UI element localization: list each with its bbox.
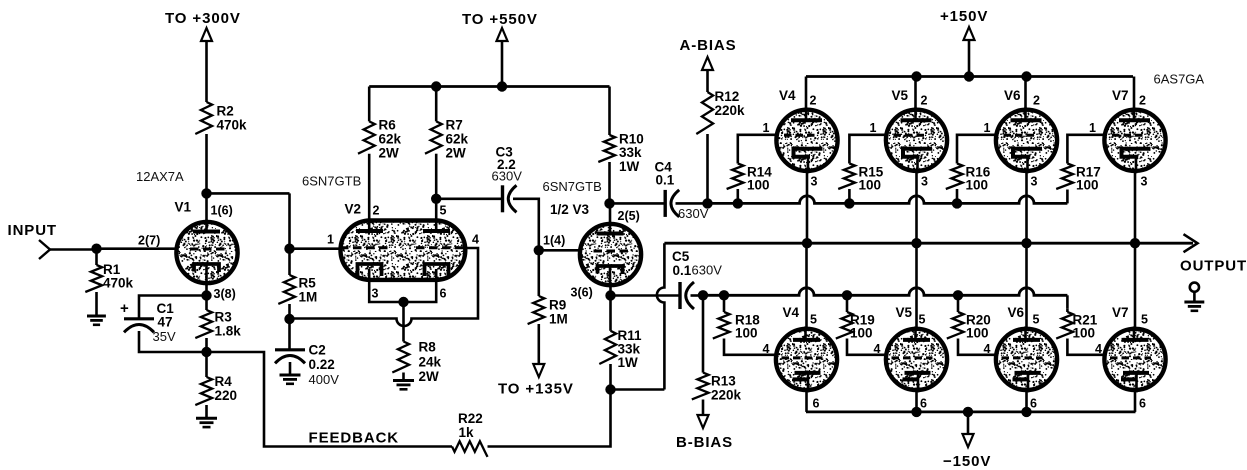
wire -150V tap down xyxy=(967,412,970,434)
wire C2 to ground xyxy=(289,362,292,375)
svg-text:2: 2 xyxy=(921,94,928,108)
svg-text:TO +550V: TO +550V xyxy=(462,11,538,28)
node R15 tap on bus A xyxy=(844,198,854,208)
wire R5 node to C2 xyxy=(288,319,291,350)
svg-text:V2: V2 xyxy=(345,202,362,217)
wire R2 to V1 plate node xyxy=(205,134,208,193)
svg-text:470k: 470k xyxy=(103,276,134,291)
V5 bottom grid (dashed) xyxy=(892,356,933,359)
svg-text:3(8): 3(8) xyxy=(214,287,236,301)
svg-text:6SN7GTB: 6SN7GTB xyxy=(543,179,602,194)
resistor R5 xyxy=(278,275,295,304)
wire V6 top plate lead xyxy=(1024,77,1027,111)
svg-text:A-BIAS: A-BIAS xyxy=(680,37,737,54)
node R20 tap on bus B xyxy=(953,290,963,300)
wire R4 to ground xyxy=(205,405,208,418)
V4 bottom plate bar xyxy=(793,338,820,342)
svg-text:470k: 470k xyxy=(217,118,248,133)
V4 top plate bar xyxy=(791,118,822,122)
wire +300V to R2 xyxy=(205,41,208,102)
wire R12 to bus A xyxy=(706,134,709,203)
V5 bottom tube envelope xyxy=(886,329,947,390)
V5 top tube envelope xyxy=(886,110,947,171)
power arrow B-BIAS xyxy=(698,415,709,428)
svg-text:100: 100 xyxy=(966,326,989,341)
node R11/feedback/output-leg junction xyxy=(605,384,615,394)
svg-text:5: 5 xyxy=(919,313,926,327)
wire input node to V1 grid xyxy=(97,247,177,250)
svg-text:V5: V5 xyxy=(896,305,913,320)
wire R3 bottom xyxy=(205,338,208,352)
svg-text:4: 4 xyxy=(472,233,479,247)
wire V7 bottom cathode to -150V bus xyxy=(1134,390,1137,412)
output jack lead xyxy=(1193,292,1196,302)
svg-text:2W: 2W xyxy=(379,146,400,161)
svg-text:630V: 630V xyxy=(492,169,523,184)
V5 top plate bar xyxy=(901,118,932,122)
V7 bottom plate bar xyxy=(1122,338,1149,342)
node V2 cathodes junction xyxy=(398,297,408,307)
resistor R8 xyxy=(392,342,409,373)
plate bus +150V xyxy=(806,75,1133,78)
svg-text:2(7): 2(7) xyxy=(138,233,160,247)
wire R5 node to V2 grid-4 (with hop over R8) xyxy=(290,248,479,326)
V4 top tube envelope xyxy=(776,110,837,171)
wire R7 top xyxy=(435,87,438,122)
svg-text:1W: 1W xyxy=(618,355,639,370)
V6 bottom tube envelope xyxy=(996,329,1057,390)
triode V3 tube envelope xyxy=(580,224,641,285)
node R5/C2 junction xyxy=(284,314,294,324)
svg-text:1: 1 xyxy=(870,121,877,135)
wire R5 bottom xyxy=(288,304,291,319)
resistor R14 xyxy=(727,164,744,189)
power arrow +300V xyxy=(201,28,212,41)
svg-text:R13: R13 xyxy=(711,374,736,389)
V2 left cathode lead xyxy=(369,269,403,302)
resistor R16 xyxy=(946,164,963,189)
node R7/C3/V2-plate junction xyxy=(431,194,441,204)
V7 top plate bar xyxy=(1119,118,1150,122)
V5 bottom plate bar xyxy=(903,338,930,342)
svg-text:62k: 62k xyxy=(446,132,469,147)
triode V1 plate bar xyxy=(193,230,220,234)
wire R16 to bus A xyxy=(956,189,959,203)
node R3/R4/feedback junction xyxy=(201,347,211,357)
V2 right grid (dashed) xyxy=(416,246,466,249)
svg-text:TO +135V: TO +135V xyxy=(498,381,574,398)
svg-text:2W: 2W xyxy=(419,369,440,384)
svg-text:2: 2 xyxy=(373,203,380,217)
resistor R18 xyxy=(713,312,730,339)
svg-text:3: 3 xyxy=(921,175,928,189)
V6 bottom plate bar xyxy=(1013,338,1040,342)
V2 right cathode lead xyxy=(404,269,437,302)
node R7 tap on +550 bus xyxy=(431,81,441,91)
node V5 plate tap xyxy=(911,71,921,81)
node V7 on output bus xyxy=(1130,238,1140,248)
output jack circle xyxy=(1190,283,1199,292)
V6 top grid (dashed) xyxy=(1004,134,1037,137)
wire V7 top grid xyxy=(1067,135,1106,164)
wire V7 top cathode to output bus xyxy=(1134,171,1137,243)
svg-text:1/2 V3: 1/2 V3 xyxy=(550,202,590,217)
node V6 bottom cathode tap xyxy=(1021,407,1031,417)
V7 top cathode xyxy=(1122,149,1151,157)
wire +550V arrow to bus xyxy=(501,41,504,87)
resistor R7 xyxy=(425,121,442,153)
capacitor C2 xyxy=(275,348,305,351)
svg-text:62k: 62k xyxy=(379,132,402,147)
node V5 bottom cathode tap xyxy=(911,407,921,417)
svg-text:6: 6 xyxy=(440,287,447,301)
wire input to R1 node xyxy=(50,247,97,250)
bus B (C5 output to bottom grid resistors, hops over plate leads) xyxy=(703,288,1067,296)
svg-text:630V: 630V xyxy=(678,206,709,221)
wire +150V arrow to bus xyxy=(968,40,971,77)
resistor R12 xyxy=(696,92,713,134)
wire R14 to bus A xyxy=(736,189,739,203)
wire R13 from bus B xyxy=(702,295,705,372)
V6 bottom cathode xyxy=(1013,373,1041,380)
power arrow -150V xyxy=(963,434,974,447)
wire V6 top cathode to output bus xyxy=(1025,171,1028,243)
svg-text:OUTPUT: OUTPUT xyxy=(1180,258,1247,275)
wire R20 from bus B xyxy=(957,295,960,312)
svg-text:100: 100 xyxy=(850,326,873,341)
wire C4 to bus A xyxy=(676,202,709,205)
svg-text:2(5): 2(5) xyxy=(618,209,640,223)
svg-text:V7: V7 xyxy=(1112,88,1129,103)
wire R11 node to output leg xyxy=(611,388,665,391)
V2 left grid (dashed) xyxy=(340,246,390,249)
wire V3 cathode to C5 xyxy=(611,294,681,297)
wire V6 top grid xyxy=(957,135,998,164)
wire V5 top plate lead xyxy=(914,77,917,111)
svg-text:2W: 2W xyxy=(446,146,467,161)
wire R13 to arrow xyxy=(702,400,705,416)
svg-text:6SN7GTB: 6SN7GTB xyxy=(302,174,361,189)
resistor R11 xyxy=(599,331,616,364)
wire R4 top xyxy=(205,352,208,377)
triode V1 tube envelope xyxy=(176,222,237,283)
wire feedback to R11 node xyxy=(488,390,611,447)
power arrow A-BIAS xyxy=(702,57,713,70)
resistor R3 xyxy=(195,310,212,338)
wire V6 bottom plate lead to output bus xyxy=(1025,243,1028,330)
wire C3 to V3 grid node xyxy=(513,199,539,251)
V2 right plate lead xyxy=(435,199,438,231)
wire R21 from bus B xyxy=(1066,309,1069,312)
input terminal chevron xyxy=(39,240,50,259)
wire R18 to V4 bottom grid xyxy=(724,339,778,355)
svg-text:V6: V6 xyxy=(1004,88,1021,103)
ground below R1 xyxy=(87,315,106,318)
svg-text:V5: V5 xyxy=(892,88,909,103)
wire V7 bottom plate lead to output bus xyxy=(1134,243,1137,330)
svg-text:1: 1 xyxy=(984,121,991,135)
svg-text:5: 5 xyxy=(1141,313,1148,327)
svg-text:1M: 1M xyxy=(549,312,568,327)
svg-text:1(4): 1(4) xyxy=(543,234,565,248)
svg-text:6: 6 xyxy=(920,397,927,411)
svg-text:V7: V7 xyxy=(1112,305,1129,320)
V2 left plate lead xyxy=(368,154,371,231)
wire R9 top xyxy=(537,250,540,296)
node +150V tap xyxy=(964,71,974,81)
V5 top cathode xyxy=(903,149,932,157)
wire feedback run xyxy=(207,352,453,447)
V4 top grid (dashed) xyxy=(784,134,817,137)
V2 right cathode xyxy=(425,264,449,276)
wire R20 to V6 bottom grid xyxy=(958,339,998,355)
svg-text:1M: 1M xyxy=(299,290,318,305)
svg-text:1: 1 xyxy=(1089,121,1096,135)
svg-text:V4: V4 xyxy=(779,88,796,103)
svg-text:R9: R9 xyxy=(549,298,566,313)
capacitor C1 xyxy=(124,317,154,320)
svg-text:6: 6 xyxy=(813,397,820,411)
V4 bottom grid (dashed) xyxy=(782,356,823,359)
svg-text:100: 100 xyxy=(966,178,989,193)
svg-text:R7: R7 xyxy=(446,118,463,133)
wire R19 from bus B xyxy=(846,295,849,312)
svg-text:6AS7GA: 6AS7GA xyxy=(1154,72,1205,87)
svg-text:3: 3 xyxy=(372,287,379,301)
wire V1 cathode lead xyxy=(205,284,208,296)
triode V1 grid (dashed) xyxy=(190,248,228,251)
V7 top tube envelope xyxy=(1104,110,1165,171)
node R18 tap on bus B xyxy=(719,290,729,300)
svg-text:3: 3 xyxy=(1031,175,1038,189)
svg-text:B-BIAS: B-BIAS xyxy=(676,434,733,451)
svg-text:400V: 400V xyxy=(309,372,340,387)
V2 left cathode xyxy=(358,264,382,276)
resistor R6 xyxy=(358,121,375,153)
node V1 plate junction xyxy=(201,188,211,198)
node V3 plate junction xyxy=(604,198,614,208)
svg-text:R3: R3 xyxy=(215,310,233,325)
wire V4 top grid xyxy=(738,135,778,164)
wire V2 cathodes to R8 xyxy=(402,302,405,342)
node V1 cathode junction 3(8) xyxy=(201,290,211,300)
svg-text:220k: 220k xyxy=(715,103,746,118)
node V5 on output bus xyxy=(911,238,921,248)
svg-text:1: 1 xyxy=(763,121,770,135)
wire V1 plate to V2 grid-1 node xyxy=(288,193,291,248)
V4 bottom cathode xyxy=(793,373,821,380)
wire R18 from bus B xyxy=(723,295,726,312)
V2 right plate bar xyxy=(423,229,450,233)
wire V5 top cathode to output bus xyxy=(915,171,918,243)
svg-text:R2: R2 xyxy=(217,104,234,119)
wire R11 top xyxy=(609,296,612,331)
output bus xyxy=(664,242,1193,245)
node V2 grid-1 junction xyxy=(284,244,294,254)
svg-text:TO +300V: TO +300V xyxy=(165,10,241,27)
wire R6 top corner xyxy=(368,87,371,122)
wire R5 top xyxy=(288,249,291,275)
output bus left leg (hop over C5 wire) xyxy=(657,243,664,389)
svg-text:220k: 220k xyxy=(711,388,742,403)
svg-text:3: 3 xyxy=(811,175,818,189)
node input/R1 junction xyxy=(91,244,101,254)
ground at output jack xyxy=(1184,301,1204,304)
wire R3 top xyxy=(205,296,208,311)
wire R8 to ground xyxy=(402,373,405,381)
svg-text:0.1: 0.1 xyxy=(656,173,675,188)
node V3 grid junction xyxy=(534,245,544,255)
wire R19 to V5 bottom grid xyxy=(847,339,888,355)
V6 top cathode xyxy=(1013,149,1042,157)
triode V3 cathode xyxy=(598,266,623,274)
svg-text:V6: V6 xyxy=(1008,305,1025,320)
svg-text:33k: 33k xyxy=(619,145,642,160)
wire R21 to V7 bottom grid xyxy=(1067,339,1106,355)
ground below R4 xyxy=(196,417,217,420)
svg-text:3: 3 xyxy=(1141,175,1148,189)
svg-text:V1: V1 xyxy=(175,200,192,215)
V5 top grid (dashed) xyxy=(894,134,927,137)
svg-text:1W: 1W xyxy=(619,159,640,174)
V6 top tube envelope xyxy=(996,110,1057,171)
output arrowhead xyxy=(1184,234,1198,252)
wire V5 top grid xyxy=(849,135,887,164)
svg-text:V4: V4 xyxy=(783,305,800,320)
wire A-BIAS to R12 xyxy=(706,70,709,92)
wire C5 to bus B xyxy=(691,294,704,297)
V7 bottom tube envelope xyxy=(1104,329,1165,390)
wire R1 to ground xyxy=(95,292,98,316)
wire V5 bottom cathode to -150V bus xyxy=(915,390,918,412)
svg-text:1(6): 1(6) xyxy=(211,203,233,217)
resistor R22 xyxy=(452,441,488,457)
node R12 tap on bus A xyxy=(702,198,712,208)
cathode bus -150V xyxy=(806,410,1136,413)
svg-text:2: 2 xyxy=(810,94,817,108)
wire V4 top cathode to output bus xyxy=(806,171,809,243)
svg-text:R4: R4 xyxy=(215,374,233,389)
V7 bottom grid (dashed) xyxy=(1110,356,1151,359)
node R13 tap on bus B xyxy=(698,290,708,300)
wire V7 top plate lead xyxy=(1133,77,1136,111)
bus A (C4 output to top grid resistors, hops over cathode leads) xyxy=(708,196,1067,203)
wire R1 top xyxy=(95,249,98,265)
svg-text:6: 6 xyxy=(1030,397,1037,411)
resistor R2 xyxy=(195,102,212,134)
svg-text:630V: 630V xyxy=(692,263,723,278)
svg-text:2: 2 xyxy=(1139,94,1146,108)
svg-text:INPUT: INPUT xyxy=(8,222,58,239)
V7 top grid (dashed) xyxy=(1112,134,1145,137)
svg-text:C2: C2 xyxy=(309,343,326,358)
wire V5 bottom plate lead to output bus xyxy=(915,243,918,330)
svg-text:0.22: 0.22 xyxy=(309,357,335,372)
capacitor C5 xyxy=(678,282,681,309)
svg-text:0.1: 0.1 xyxy=(673,263,692,278)
capacitor C3 xyxy=(501,185,504,212)
wire R10 from +550 bus xyxy=(608,87,611,136)
svg-text:+150V: +150V xyxy=(940,8,988,25)
wire V4 bottom cathode to -150V bus xyxy=(805,390,808,412)
wire R10 to V3 plate node xyxy=(608,162,611,203)
resistor R17 xyxy=(1056,164,1073,189)
node R19 tap on bus B xyxy=(842,290,852,300)
V7 bottom cathode xyxy=(1121,373,1149,380)
resistor R15 xyxy=(838,164,855,189)
resistor R21 xyxy=(1056,312,1073,339)
resistor R10 xyxy=(598,135,615,162)
svg-text:100: 100 xyxy=(1076,178,1099,193)
svg-text:2: 2 xyxy=(1033,94,1040,108)
node R14 tap on bus A xyxy=(733,198,743,208)
wire V2 pin1 grid xyxy=(290,247,341,250)
triode V3 grid (dashed) xyxy=(594,250,632,253)
node -150V tap xyxy=(963,407,973,417)
triode V1 cathode xyxy=(194,264,219,272)
V6 top plate bar xyxy=(1011,118,1042,122)
svg-text:1: 1 xyxy=(327,233,334,247)
svg-text:1k: 1k xyxy=(459,425,475,440)
svg-text:3(6): 3(6) xyxy=(571,285,593,299)
capacitor C4 xyxy=(664,190,667,217)
svg-text:100: 100 xyxy=(747,178,770,193)
svg-text:47: 47 xyxy=(158,315,173,330)
svg-text:C5: C5 xyxy=(672,249,690,264)
node V6 on output bus xyxy=(1021,238,1031,248)
V6 bottom grid (dashed) xyxy=(1002,356,1043,359)
wire V4 top plate lead xyxy=(805,77,808,111)
resistor R19 xyxy=(836,312,853,339)
svg-text:6: 6 xyxy=(1139,397,1146,411)
node V4 on output bus xyxy=(802,238,812,248)
power arrow +550V xyxy=(497,28,508,41)
wire R11 bottom xyxy=(609,364,612,390)
wire V3 grid xyxy=(539,249,581,252)
wire V2 plate node to C3 xyxy=(436,198,502,201)
svg-text:100: 100 xyxy=(859,178,882,193)
wire V1 plate lead xyxy=(205,193,208,224)
wire V6 bottom cathode to -150V bus xyxy=(1025,390,1028,412)
V4 top cathode xyxy=(794,149,823,157)
resistor R20 xyxy=(947,312,964,339)
node +550V tap xyxy=(497,81,507,91)
svg-text:12AX7A: 12AX7A xyxy=(136,169,184,184)
node V3 cathode junction xyxy=(605,290,615,300)
wire V4 bottom plate lead to output bus xyxy=(805,243,808,330)
wire R15 to bus A xyxy=(848,189,851,203)
power arrow +150V xyxy=(964,27,975,40)
wire V3 plate lead xyxy=(609,203,612,226)
ground below C2 xyxy=(280,374,301,377)
V5 bottom cathode xyxy=(903,373,931,380)
power arrow TO +135V xyxy=(533,364,544,377)
node R16 tap on bus A xyxy=(952,198,962,208)
svg-text:R8: R8 xyxy=(419,340,437,355)
wire bus B end down to R21 xyxy=(1066,295,1069,308)
wire V3 plate node to C4 xyxy=(610,202,666,205)
svg-text:5: 5 xyxy=(440,203,447,217)
wire R9 to arrow xyxy=(537,324,540,364)
svg-text:R5: R5 xyxy=(299,276,317,291)
svg-text:5: 5 xyxy=(810,313,817,327)
ground below R8 xyxy=(393,379,414,382)
tube envelope V2 xyxy=(341,221,466,280)
V2 left plate bar xyxy=(356,229,383,233)
svg-text:220: 220 xyxy=(215,388,238,403)
svg-text:100: 100 xyxy=(1073,326,1096,341)
svg-text:100: 100 xyxy=(735,326,758,341)
